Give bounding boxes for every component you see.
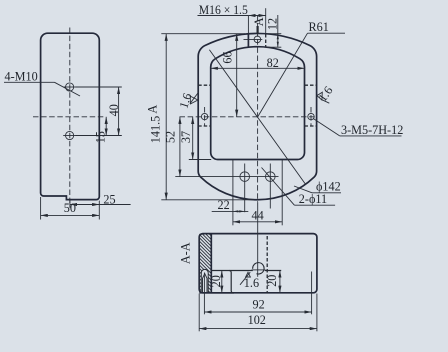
dimension 141.5 ext bottom xyxy=(161,199,253,201)
svg-text:22: 22 xyxy=(218,198,230,212)
hatch strip right edge xyxy=(210,234,212,293)
M10 thread cone xyxy=(203,274,208,293)
dimension 82 xyxy=(211,67,305,69)
ext 102 xyxy=(198,294,200,332)
dimension 15 xyxy=(105,117,107,136)
vertical cutting line A-A xyxy=(257,15,259,202)
centerline projection xyxy=(257,202,259,276)
horizontal centerline main xyxy=(180,116,317,118)
svg-text:82: 82 xyxy=(267,56,279,70)
svg-text:102: 102 xyxy=(248,313,266,327)
svg-text:15: 15 xyxy=(93,131,107,143)
dimension 37 xyxy=(192,117,194,160)
ledge line xyxy=(211,270,252,272)
svg-text:20: 20 xyxy=(265,275,279,287)
svg-text:A: A xyxy=(145,105,159,114)
label 3-M5-7H-12 xyxy=(313,119,340,136)
M5 hole right xyxy=(308,113,314,119)
svg-text:4-M10: 4-M10 xyxy=(5,70,38,84)
svg-text:M16 × 1.5: M16 × 1.5 xyxy=(199,3,248,17)
svg-text:1.6: 1.6 xyxy=(244,276,259,290)
svg-text:A: A xyxy=(252,17,266,26)
hole M10 lower xyxy=(66,131,74,139)
dimension 141.5 xyxy=(165,34,167,200)
side view outline xyxy=(41,33,100,199)
dimension 66 xyxy=(236,34,238,117)
vertical centerline xyxy=(69,28,71,206)
extension lines bottom xyxy=(69,200,71,208)
dim 20 right xyxy=(279,271,281,293)
section bottom edge over slot xyxy=(200,292,235,294)
dim 92 xyxy=(204,311,311,313)
svg-text:A-A: A-A xyxy=(179,242,193,264)
dimension 44 ext xyxy=(232,160,234,226)
finish mark 1.6 section xyxy=(246,272,251,277)
svg-text:R61: R61 xyxy=(309,20,329,34)
step with fillets xyxy=(229,271,233,293)
hidden line right wall upper xyxy=(305,84,317,86)
hole vertical line right xyxy=(269,164,271,209)
svg-text:40: 40 xyxy=(107,104,121,116)
section outline xyxy=(199,234,317,293)
M16 hole circle xyxy=(254,36,261,43)
hole vertical line left xyxy=(244,164,246,213)
diagonal R61 leader xyxy=(258,33,308,117)
hidden line left wall lower xyxy=(198,125,211,127)
hole M10 upper xyxy=(66,83,74,91)
horizontal centerline xyxy=(33,116,105,118)
ext 92 right xyxy=(311,272,313,315)
dimension 12 xyxy=(266,33,281,35)
label 2-phi11 xyxy=(262,168,295,206)
ext line 12 upper vertical xyxy=(265,8,267,34)
svg-text:50: 50 xyxy=(64,201,76,215)
hole phi11 right xyxy=(266,172,276,182)
dimension 52 xyxy=(179,117,181,177)
outer contour xyxy=(198,33,316,199)
M5 hole left xyxy=(201,113,207,119)
svg-text:3-M5-7H-12: 3-M5-7H-12 xyxy=(341,123,403,137)
hole phi11 left xyxy=(240,172,250,182)
svg-text:141.5: 141.5 xyxy=(149,116,163,143)
svg-text:37: 37 xyxy=(179,131,193,143)
label phi142 xyxy=(294,186,312,193)
boss edge right hidden xyxy=(265,34,267,47)
svg-text:66: 66 xyxy=(220,51,234,63)
dimension 44 xyxy=(233,221,282,223)
dim 102 xyxy=(199,328,317,330)
svg-text:52: 52 xyxy=(164,131,178,143)
diagonal phi142 xyxy=(209,50,305,185)
svg-text:12: 12 xyxy=(265,18,279,30)
hidden line section xyxy=(266,236,268,293)
dimension 50 xyxy=(41,214,100,216)
holes centerline xyxy=(175,176,278,178)
dimension 40 xyxy=(118,87,120,136)
dimension 37 ext xyxy=(189,159,211,161)
finish mark left 1.6 xyxy=(190,96,198,104)
M16 semicircle xyxy=(253,263,264,274)
svg-text:25: 25 xyxy=(103,192,115,206)
finish mark right 1.6 xyxy=(317,92,322,100)
ext 92 left xyxy=(203,273,205,315)
dimension 141.5 ext top xyxy=(161,33,245,35)
svg-text:2-ϕ11: 2-ϕ11 xyxy=(299,192,327,206)
dimension 25 xyxy=(70,204,99,206)
dim 20 left xyxy=(221,271,223,293)
svg-text:92: 92 xyxy=(253,298,265,312)
inner contour xyxy=(211,47,305,160)
extension lines holes xyxy=(76,86,122,88)
M10 slot in wall xyxy=(201,269,208,292)
svg-text:20: 20 xyxy=(209,275,223,287)
dimension 22 xyxy=(212,210,249,212)
boss edge left xyxy=(247,34,249,47)
hidden line right wall lower xyxy=(305,125,317,127)
hatch left wall xyxy=(195,196,260,352)
hidden line left wall upper xyxy=(198,84,211,86)
